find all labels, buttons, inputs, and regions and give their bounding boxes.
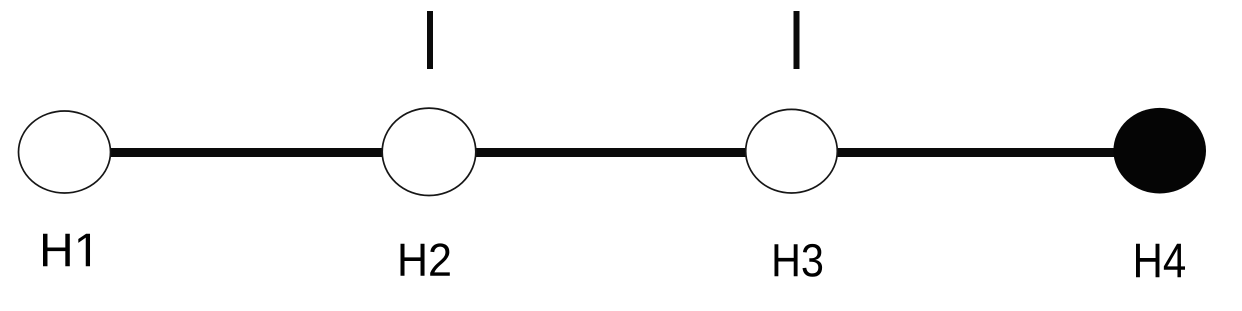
tick above node H3 [794,11,800,69]
node H4 (filled circle) [1113,108,1206,194]
node H2 (open circle) [382,108,476,195]
label H1 [43,234,90,267]
node H1 (open circle) [19,111,111,193]
label H4 [1136,244,1185,278]
tick above node H2 [427,11,433,69]
node H3 (open circle) [746,109,838,193]
wire (thick horizontal bond H1-H2-H3-H4) [64,148,1160,157]
label H3 [774,244,822,277]
label H2 [400,243,449,275]
